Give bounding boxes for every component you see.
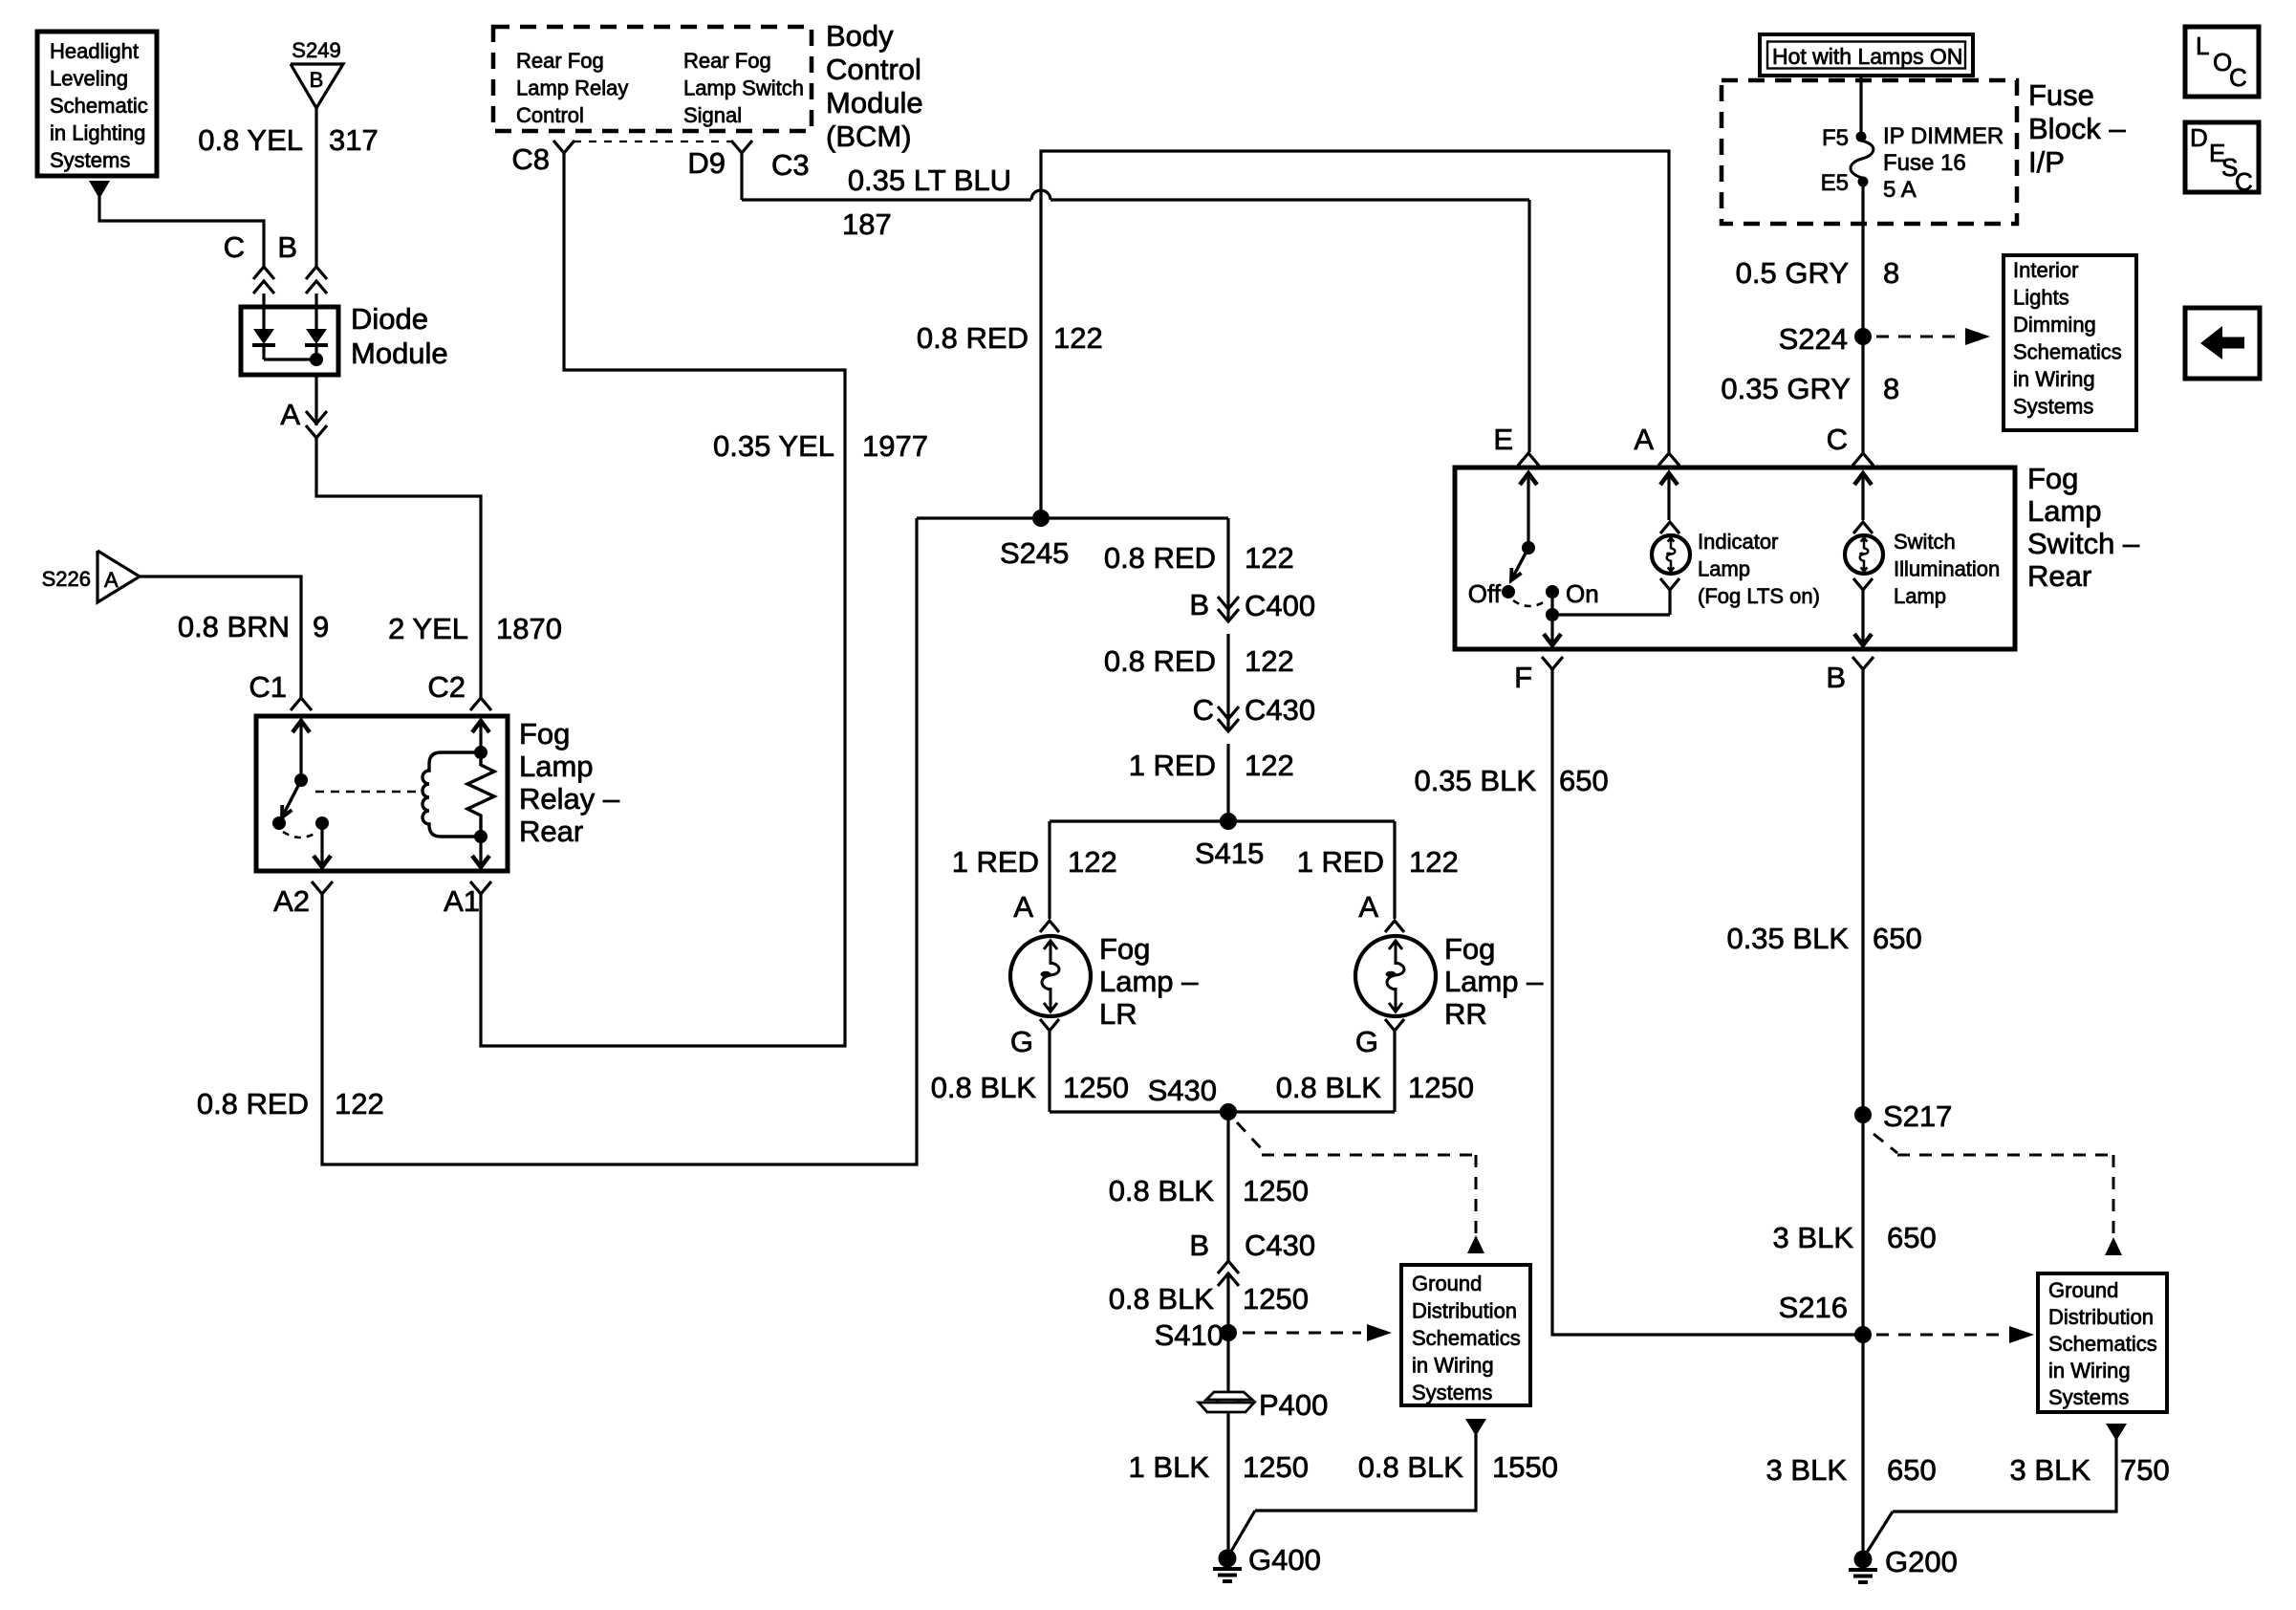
svg-text:1250: 1250 xyxy=(1408,1071,1474,1104)
svg-text:0.8 RED: 0.8 RED xyxy=(917,321,1029,355)
dashed reference from S217 to Ground Distribution box (right) xyxy=(1874,1134,2122,1255)
svg-text:S226: S226 xyxy=(42,567,91,591)
wire fuse E5 to S224, 0.5 GRY 8 xyxy=(1861,185,1864,337)
svg-text:1 BLK: 1 BLK xyxy=(1129,1450,1210,1484)
fuse F16 IP DIMMER 5A xyxy=(1821,123,2004,203)
svg-text:Systems: Systems xyxy=(1412,1381,1492,1404)
svg-text:Fog: Fog xyxy=(1444,932,1495,966)
svg-text:(Fog LTS on): (Fog LTS on) xyxy=(1698,584,1820,608)
svg-text:A2: A2 xyxy=(273,884,310,918)
wire relay A1 to BCM C8, 0.35 YEL 1977 xyxy=(481,153,845,1046)
label 1 RED 122 (above S415) xyxy=(1129,749,1294,782)
label Fog Lamp - LR xyxy=(1099,932,1199,1031)
svg-text:0.5 GRY: 0.5 GRY xyxy=(1736,256,1849,290)
svg-text:C430: C430 xyxy=(1245,693,1315,727)
ground G200 xyxy=(1849,1545,1958,1582)
label 0.8 RED 122 (riser) xyxy=(917,321,1103,355)
svg-text:Lamp –: Lamp – xyxy=(1444,965,1544,998)
label Fog Lamp - RR xyxy=(1444,932,1544,1031)
svg-text:Block –: Block – xyxy=(2028,112,2126,145)
ground G400 xyxy=(1213,1543,1321,1581)
svg-text:1550: 1550 xyxy=(1492,1450,1558,1484)
svg-text:1 RED: 1 RED xyxy=(1129,749,1216,782)
svg-text:8: 8 xyxy=(1883,256,1899,290)
label 0.35 BLK 650 (B wire) xyxy=(1726,922,1921,955)
wire switch F to S216, 0.35 BLK 650 xyxy=(1552,669,1863,1335)
svg-text:Interior: Interior xyxy=(2013,258,2078,282)
svg-text:Distribution: Distribution xyxy=(2048,1305,2154,1329)
wire Ground Distribution to G400, 0.8 BLK 1550 xyxy=(1229,1434,1476,1555)
svg-text:Fog: Fog xyxy=(1099,932,1150,966)
svg-text:Schematic: Schematic xyxy=(50,94,148,118)
svg-text:G: G xyxy=(1010,1025,1033,1058)
label 0.35 YEL 1977 xyxy=(713,429,928,463)
svg-text:1 RED: 1 RED xyxy=(952,845,1039,879)
switch pin A chevron xyxy=(1634,423,1679,466)
svg-text:Control: Control xyxy=(826,53,921,86)
svg-text:3 BLK: 3 BLK xyxy=(1773,1221,1854,1254)
svg-text:Diode: Diode xyxy=(351,302,428,336)
svg-text:Fuse 16: Fuse 16 xyxy=(1883,150,1966,176)
svg-text:B: B xyxy=(1189,588,1209,621)
svg-text:122: 122 xyxy=(1409,845,1459,879)
wire fog lamp LR to S430, 0.8 BLK 1250 xyxy=(1048,1031,1051,1112)
svg-text:C: C xyxy=(2235,167,2253,196)
wire C430 to S410, 0.8 BLK 1250 xyxy=(1226,1274,1229,1333)
connector S249 triangle (pin B) xyxy=(291,38,343,108)
svg-text:E5: E5 xyxy=(1821,170,1849,196)
svg-text:A: A xyxy=(104,568,119,592)
relay coil L1 xyxy=(422,720,489,843)
wire S415 to fog lamp LR, 1 RED 122 xyxy=(1048,821,1051,919)
relay coil output to A1 xyxy=(472,837,489,868)
wire S430 to C430 pin B, 0.8 BLK 1250 xyxy=(1226,1112,1229,1261)
svg-text:122: 122 xyxy=(1053,321,1103,355)
switch On contact to F and indicator lamp xyxy=(1544,592,1670,646)
label 0.8 BRN 9 xyxy=(178,610,329,643)
relay pin C2 connector chevron xyxy=(427,670,491,710)
dashed reference from S410 to Ground Distribution box xyxy=(1243,1324,1392,1341)
svg-text:in Wiring: in Wiring xyxy=(2048,1359,2131,1382)
wire S245 riser to switch pin A, 0.8 RED 122 xyxy=(1041,151,1669,518)
label 2 YEL 1870 xyxy=(388,612,562,645)
svg-text:LR: LR xyxy=(1099,997,1137,1031)
svg-text:Rear: Rear xyxy=(519,815,583,848)
svg-text:Leveling: Leveling xyxy=(50,67,128,91)
svg-text:S430: S430 xyxy=(1148,1074,1217,1107)
svg-text:650: 650 xyxy=(1887,1453,1937,1487)
BCM pin D9/C3 connector chevron xyxy=(687,141,809,182)
svg-text:G400: G400 xyxy=(1248,1543,1321,1577)
dashed reference from S430 to Ground Distribution box xyxy=(1237,1122,1484,1253)
svg-text:Lamp: Lamp xyxy=(1698,557,1750,581)
svg-text:Illumination: Illumination xyxy=(1894,557,2000,581)
svg-text:A: A xyxy=(1358,890,1378,924)
wire P400 to G400, 1 BLK 1250 xyxy=(1226,1412,1229,1558)
arrow from Headlight Leveling box xyxy=(89,181,110,199)
page reference box DESC xyxy=(2185,122,2259,196)
fog lamp RR pin A chevron xyxy=(1358,890,1404,932)
svg-text:S415: S415 xyxy=(1195,837,1264,870)
svg-text:Lamp: Lamp xyxy=(519,750,594,783)
fog lamp LR xyxy=(1010,936,1091,1016)
svg-text:0.8 RED: 0.8 RED xyxy=(197,1087,309,1120)
svg-text:P400: P400 xyxy=(1259,1388,1328,1422)
svg-text:Relay –: Relay – xyxy=(519,782,620,816)
svg-text:B: B xyxy=(310,68,324,92)
svg-text:C2: C2 xyxy=(427,670,466,704)
label 1 RED 122 (RR) xyxy=(1297,845,1459,879)
svg-text:Lamp –: Lamp – xyxy=(1099,965,1199,998)
wire C430 to S415, 1 RED 122 xyxy=(1226,744,1229,821)
svg-text:Schematics: Schematics xyxy=(2013,340,2122,364)
svg-text:D: D xyxy=(2190,123,2208,152)
switch arm (E side) with Off/On contacts xyxy=(1468,472,1599,608)
svg-text:650: 650 xyxy=(1559,764,1609,797)
label 0.35 BLK 650 (F wire) xyxy=(1414,764,1608,797)
svg-text:B: B xyxy=(1826,661,1846,694)
svg-text:Control: Control xyxy=(516,103,584,127)
svg-text:Lamp: Lamp xyxy=(2027,494,2102,528)
diode module U1 box xyxy=(241,307,338,375)
svg-text:122: 122 xyxy=(1245,749,1294,782)
relay K1 box: Fog Lamp Relay - Rear xyxy=(256,716,508,871)
svg-text:Schematics: Schematics xyxy=(1412,1326,1521,1350)
svg-text:Body: Body xyxy=(826,19,894,53)
diode D1 (left) xyxy=(252,307,275,359)
svg-text:S224: S224 xyxy=(1779,322,1848,356)
label 3 BLK 750 xyxy=(2010,1453,2170,1487)
svg-text:650: 650 xyxy=(1873,922,1922,955)
svg-text:A: A xyxy=(1634,423,1654,456)
svg-text:A: A xyxy=(1013,890,1033,924)
reference box: Ground Distribution Schematics in Wiring Systems (right) xyxy=(2038,1273,2167,1412)
label 0.8 BLK 1250 (above S410) xyxy=(1109,1282,1309,1316)
label Indicator Lamp (Fog LTS on) xyxy=(1698,530,1820,608)
label 0.8 YEL 317 xyxy=(198,123,378,157)
svg-text:F: F xyxy=(1514,661,1532,694)
label 3 BLK 650 (upper) xyxy=(1773,1221,1937,1254)
svg-text:1250: 1250 xyxy=(1243,1174,1309,1207)
dashed reference from S216 to Ground Distribution box (right) xyxy=(1876,1326,2034,1343)
svg-text:122: 122 xyxy=(1068,845,1117,879)
label 187 xyxy=(842,207,892,241)
svg-text:A: A xyxy=(280,398,300,431)
svg-text:S245: S245 xyxy=(1000,536,1069,570)
wire fog lamp RR to S430, 0.8 BLK 1250 xyxy=(1393,1031,1396,1112)
svg-text:A1: A1 xyxy=(444,884,480,918)
svg-text:Off: Off xyxy=(1468,579,1502,608)
svg-text:C: C xyxy=(2229,63,2247,92)
label 1 BLK 1250 xyxy=(1129,1450,1309,1484)
reference box: Hot with Lamps ON xyxy=(1760,34,1973,76)
svg-text:G200: G200 xyxy=(1885,1545,1958,1578)
diode D2 (right) xyxy=(305,307,328,359)
svg-text:1977: 1977 xyxy=(862,429,928,463)
relay switch output to A2 xyxy=(314,823,331,868)
wire S216 to G200, 3 BLK 650 xyxy=(1861,1335,1864,1559)
wire switch B to S217, 0.35 BLK 650 xyxy=(1861,669,1864,1115)
svg-text:C: C xyxy=(224,230,245,264)
svg-text:317: 317 xyxy=(329,123,379,157)
svg-text:Indicator: Indicator xyxy=(1698,530,1778,554)
label Fog Lamp Relay - Rear xyxy=(519,717,620,848)
svg-text:C3: C3 xyxy=(771,148,810,182)
svg-text:S217: S217 xyxy=(1883,1099,1952,1133)
svg-text:0.8 RED: 0.8 RED xyxy=(1104,644,1216,678)
svg-text:0.35 BLK: 0.35 BLK xyxy=(1726,922,1849,955)
label Body Control Module (BCM) xyxy=(826,19,923,153)
splice S430 xyxy=(1050,1074,1395,1120)
svg-text:750: 750 xyxy=(2120,1453,2170,1487)
svg-text:122: 122 xyxy=(1245,644,1294,678)
svg-text:Fog: Fog xyxy=(2027,462,2078,495)
wire S415 to fog lamp RR, 1 RED 122 xyxy=(1393,821,1396,919)
fog lamp RR pin G chevron xyxy=(1355,1019,1404,1058)
svg-text:Dimming: Dimming xyxy=(2013,313,2096,337)
relay pin C1 connector chevron xyxy=(249,670,312,710)
svg-text:Lights: Lights xyxy=(2013,286,2069,310)
svg-text:1250: 1250 xyxy=(1243,1450,1309,1484)
wire S224 to switch pin C, 0.35 GRY 8 xyxy=(1861,337,1864,452)
switch pin E chevron xyxy=(1493,423,1539,466)
label 3 BLK 650 (lower) xyxy=(1766,1453,1937,1487)
svg-text:0.8 BLK: 0.8 BLK xyxy=(1109,1174,1215,1207)
svg-text:Systems: Systems xyxy=(2048,1385,2129,1409)
svg-text:S410: S410 xyxy=(1155,1318,1224,1352)
BCM pin C8 connector chevron xyxy=(511,141,574,176)
svg-text:Distribution: Distribution xyxy=(1412,1299,1517,1323)
label 0.35 GRY 8 xyxy=(1721,372,1899,405)
in-line connector C430 pin C chevrons xyxy=(1193,693,1316,731)
label Diode Module xyxy=(351,302,448,370)
wire S245 down to connector C400, 0.8 RED 122 xyxy=(1226,518,1229,621)
svg-text:0.8 BLK: 0.8 BLK xyxy=(1109,1282,1215,1316)
svg-text:Module: Module xyxy=(826,86,923,120)
arrow below right Ground Distribution box xyxy=(2106,1424,2127,1441)
reference box: Headlight Leveling Schematic in Lighting Systems xyxy=(37,32,157,176)
fog lamp RR xyxy=(1355,936,1436,1016)
wire C400 to C430, 0.8 RED 122 xyxy=(1226,634,1229,731)
in-line connector C430 pin B chevrons (upward) xyxy=(1189,1229,1315,1286)
svg-text:5 A: 5 A xyxy=(1883,177,1917,203)
svg-text:Schematics: Schematics xyxy=(2048,1332,2157,1356)
svg-text:0.8 BRN: 0.8 BRN xyxy=(178,610,290,643)
svg-text:B: B xyxy=(1189,1229,1209,1262)
dashed reference from S224 to Interior Lights box xyxy=(1876,328,1990,345)
wire S249 to diode module pin B, 0.8 YEL 317 xyxy=(314,108,317,267)
label 0.8 BLK 1250 (LR) xyxy=(931,1071,1129,1104)
svg-text:9: 9 xyxy=(313,610,329,643)
splice S415 xyxy=(1050,813,1395,870)
svg-text:2 YEL: 2 YEL xyxy=(388,612,468,645)
svg-text:0.8 BLK: 0.8 BLK xyxy=(1276,1071,1382,1104)
label Fuse Block - I/P xyxy=(2028,78,2126,179)
splice S216 xyxy=(1779,1291,1872,1343)
switch pin F chevron xyxy=(1514,657,1563,694)
svg-text:C1: C1 xyxy=(249,670,287,704)
svg-text:Hot with Lamps ON: Hot with Lamps ON xyxy=(1772,44,1962,69)
wire Ground Distribution to G200, 3 BLK 750 xyxy=(1865,1439,2116,1556)
svg-text:0.8 YEL: 0.8 YEL xyxy=(198,123,303,157)
indicator lamp (Fog LTS on) xyxy=(1652,472,1690,615)
switch pin C chevron xyxy=(1827,423,1874,466)
relay pin A2 connector chevron xyxy=(273,881,333,918)
label 1 RED 122 (LR) xyxy=(952,845,1117,879)
svg-text:L: L xyxy=(2196,32,2209,60)
svg-text:in Wiring: in Wiring xyxy=(1412,1354,1494,1378)
switch illumination lamp xyxy=(1845,472,1883,646)
svg-text:Lamp: Lamp xyxy=(1894,584,1946,608)
svg-text:IP DIMMER: IP DIMMER xyxy=(1883,123,2004,149)
svg-text:8: 8 xyxy=(1883,372,1899,405)
splice S224 xyxy=(1779,322,1872,356)
splice S217 xyxy=(1854,1099,1952,1133)
label 0.8 BLK 1550 xyxy=(1358,1450,1558,1484)
switch pin B chevron xyxy=(1826,657,1874,694)
svg-text:0.8 RED: 0.8 RED xyxy=(1104,541,1216,575)
svg-text:1250: 1250 xyxy=(1063,1071,1129,1104)
splice S245 xyxy=(917,510,1228,570)
BCM connector face dashed line xyxy=(574,141,732,142)
page reference box LOC xyxy=(2185,27,2259,97)
relay resistor R1 xyxy=(467,752,494,837)
svg-text:I/P: I/P xyxy=(2028,145,2065,179)
svg-text:Rear Fog: Rear Fog xyxy=(516,49,604,73)
grommet P400 xyxy=(1199,1388,1328,1422)
relay armature to coil dashed link xyxy=(315,791,419,794)
label 0.8 BLK 1250 (below S430) xyxy=(1109,1174,1309,1207)
BCM dashed box xyxy=(493,27,812,131)
svg-text:Module: Module xyxy=(351,337,448,370)
fog lamp switch S1 box: Fog Lamp Switch - Rear xyxy=(1455,468,2015,649)
svg-text:Switch: Switch xyxy=(1894,530,1956,554)
svg-text:C430: C430 xyxy=(1245,1229,1315,1262)
svg-text:0.35 BLK: 0.35 BLK xyxy=(1414,764,1536,797)
diode module pin B connector chevrons xyxy=(277,230,327,305)
svg-text:122: 122 xyxy=(1245,541,1294,575)
svg-text:E: E xyxy=(1493,423,1513,456)
svg-text:1 RED: 1 RED xyxy=(1297,845,1384,879)
svg-text:S249: S249 xyxy=(292,38,340,62)
svg-text:Fog: Fog xyxy=(519,717,570,751)
wire diode module A to relay pin C2, 2 YEL 1870 xyxy=(316,438,481,698)
svg-text:Signal: Signal xyxy=(683,103,742,127)
wire S226 to relay pin C1, 0.8 BRN 9 xyxy=(140,577,301,698)
svg-text:S216: S216 xyxy=(1779,1291,1848,1324)
svg-text:D9: D9 xyxy=(687,146,726,180)
wire S410 to P400 xyxy=(1226,1333,1229,1392)
relay switch arm (C1 side) xyxy=(272,720,329,838)
wire relay A2 to S245 branch, 0.8 RED 122 xyxy=(322,518,917,1164)
svg-text:Rear: Rear xyxy=(2027,559,2091,593)
svg-text:C: C xyxy=(1827,423,1848,456)
svg-text:1870: 1870 xyxy=(496,612,562,645)
svg-text:0.35 GRY: 0.35 GRY xyxy=(1721,372,1851,405)
svg-text:3 BLK: 3 BLK xyxy=(2010,1453,2091,1487)
svg-text:Fuse: Fuse xyxy=(2028,78,2094,112)
diode module pin A connector chevrons xyxy=(280,375,327,438)
svg-text:Rear Fog: Rear Fog xyxy=(683,49,771,73)
svg-text:C400: C400 xyxy=(1245,589,1315,622)
svg-text:On: On xyxy=(1566,579,1599,608)
svg-text:RR: RR xyxy=(1444,997,1487,1031)
svg-text:187: 187 xyxy=(842,207,892,241)
svg-text:122: 122 xyxy=(335,1087,384,1120)
arrow below left Ground Distribution box xyxy=(1465,1419,1486,1436)
fog lamp LR pin A chevron xyxy=(1013,890,1059,932)
svg-text:(BCM): (BCM) xyxy=(826,120,912,153)
fog lamp LR pin G chevron xyxy=(1010,1019,1059,1058)
relay pin A1 connector chevron xyxy=(444,881,491,918)
svg-text:650: 650 xyxy=(1887,1221,1937,1254)
connector S226 triangle (pin A) xyxy=(42,551,140,602)
label Fog Lamp Switch - Rear xyxy=(2027,462,2140,593)
label Rear Fog Lamp Switch Signal xyxy=(683,49,804,127)
svg-text:Lamp Switch: Lamp Switch xyxy=(683,76,804,100)
wire Hot box to fuse terminal F5 xyxy=(1859,76,1862,134)
label 0.5 GRY 8 xyxy=(1736,256,1900,290)
svg-text:C8: C8 xyxy=(511,142,550,176)
left-arrow reference box xyxy=(2185,308,2260,379)
fuse block dashed box xyxy=(1722,80,2017,224)
label 0.8 RED 122 (above C400) xyxy=(1104,541,1294,575)
svg-text:F5: F5 xyxy=(1822,125,1849,151)
label 0.8 RED 122 (above C430) xyxy=(1104,644,1294,678)
svg-text:in Lighting: in Lighting xyxy=(50,121,145,145)
svg-text:Systems: Systems xyxy=(2013,395,2093,419)
svg-text:Lamp Relay: Lamp Relay xyxy=(516,76,628,100)
svg-text:Headlight: Headlight xyxy=(50,39,139,63)
svg-text:C: C xyxy=(1193,693,1214,727)
svg-text:Switch –: Switch – xyxy=(2027,527,2140,560)
svg-text:in Wiring: in Wiring xyxy=(2013,367,2095,391)
wire S217 to S216, 3 BLK 650 xyxy=(1861,1115,1864,1335)
wire BCM C3 to switch pin E, 0.35 LT BLU 187 xyxy=(742,153,1529,452)
svg-text:1250: 1250 xyxy=(1243,1282,1309,1316)
splice S410 xyxy=(1155,1318,1237,1352)
svg-text:Ground: Ground xyxy=(2048,1278,2118,1302)
diode module internal junction xyxy=(264,353,323,366)
svg-text:Ground: Ground xyxy=(1412,1272,1482,1295)
svg-text:G: G xyxy=(1355,1025,1378,1058)
label 0.8 RED 122 (A2 wire) xyxy=(197,1087,384,1120)
svg-text:0.35 LT BLU: 0.35 LT BLU xyxy=(848,163,1011,197)
svg-text:0.8 BLK: 0.8 BLK xyxy=(1358,1450,1464,1484)
svg-text:3 BLK: 3 BLK xyxy=(1766,1453,1848,1487)
reference box: Ground Distribution Schematics in Wiring Systems (left) xyxy=(1401,1265,1530,1405)
label 0.35 LT BLU xyxy=(848,163,1011,197)
wire headlight box to diode module pin C xyxy=(99,197,264,267)
diode module pin C connector chevrons xyxy=(224,230,274,305)
label 0.8 BLK 1250 (RR) xyxy=(1276,1071,1474,1104)
label Switch Illumination Lamp xyxy=(1894,530,2000,608)
label Rear Fog Lamp Relay Control xyxy=(516,49,628,127)
svg-text:Systems: Systems xyxy=(50,148,130,172)
reference box: Interior Lights Dimming Schematics in Wiring Systems xyxy=(2004,255,2136,430)
svg-text:0.35 YEL: 0.35 YEL xyxy=(713,429,834,463)
in-line connector C400 pin B chevrons xyxy=(1189,588,1315,622)
svg-text:0.8 BLK: 0.8 BLK xyxy=(931,1071,1037,1104)
svg-text:B: B xyxy=(277,230,297,264)
